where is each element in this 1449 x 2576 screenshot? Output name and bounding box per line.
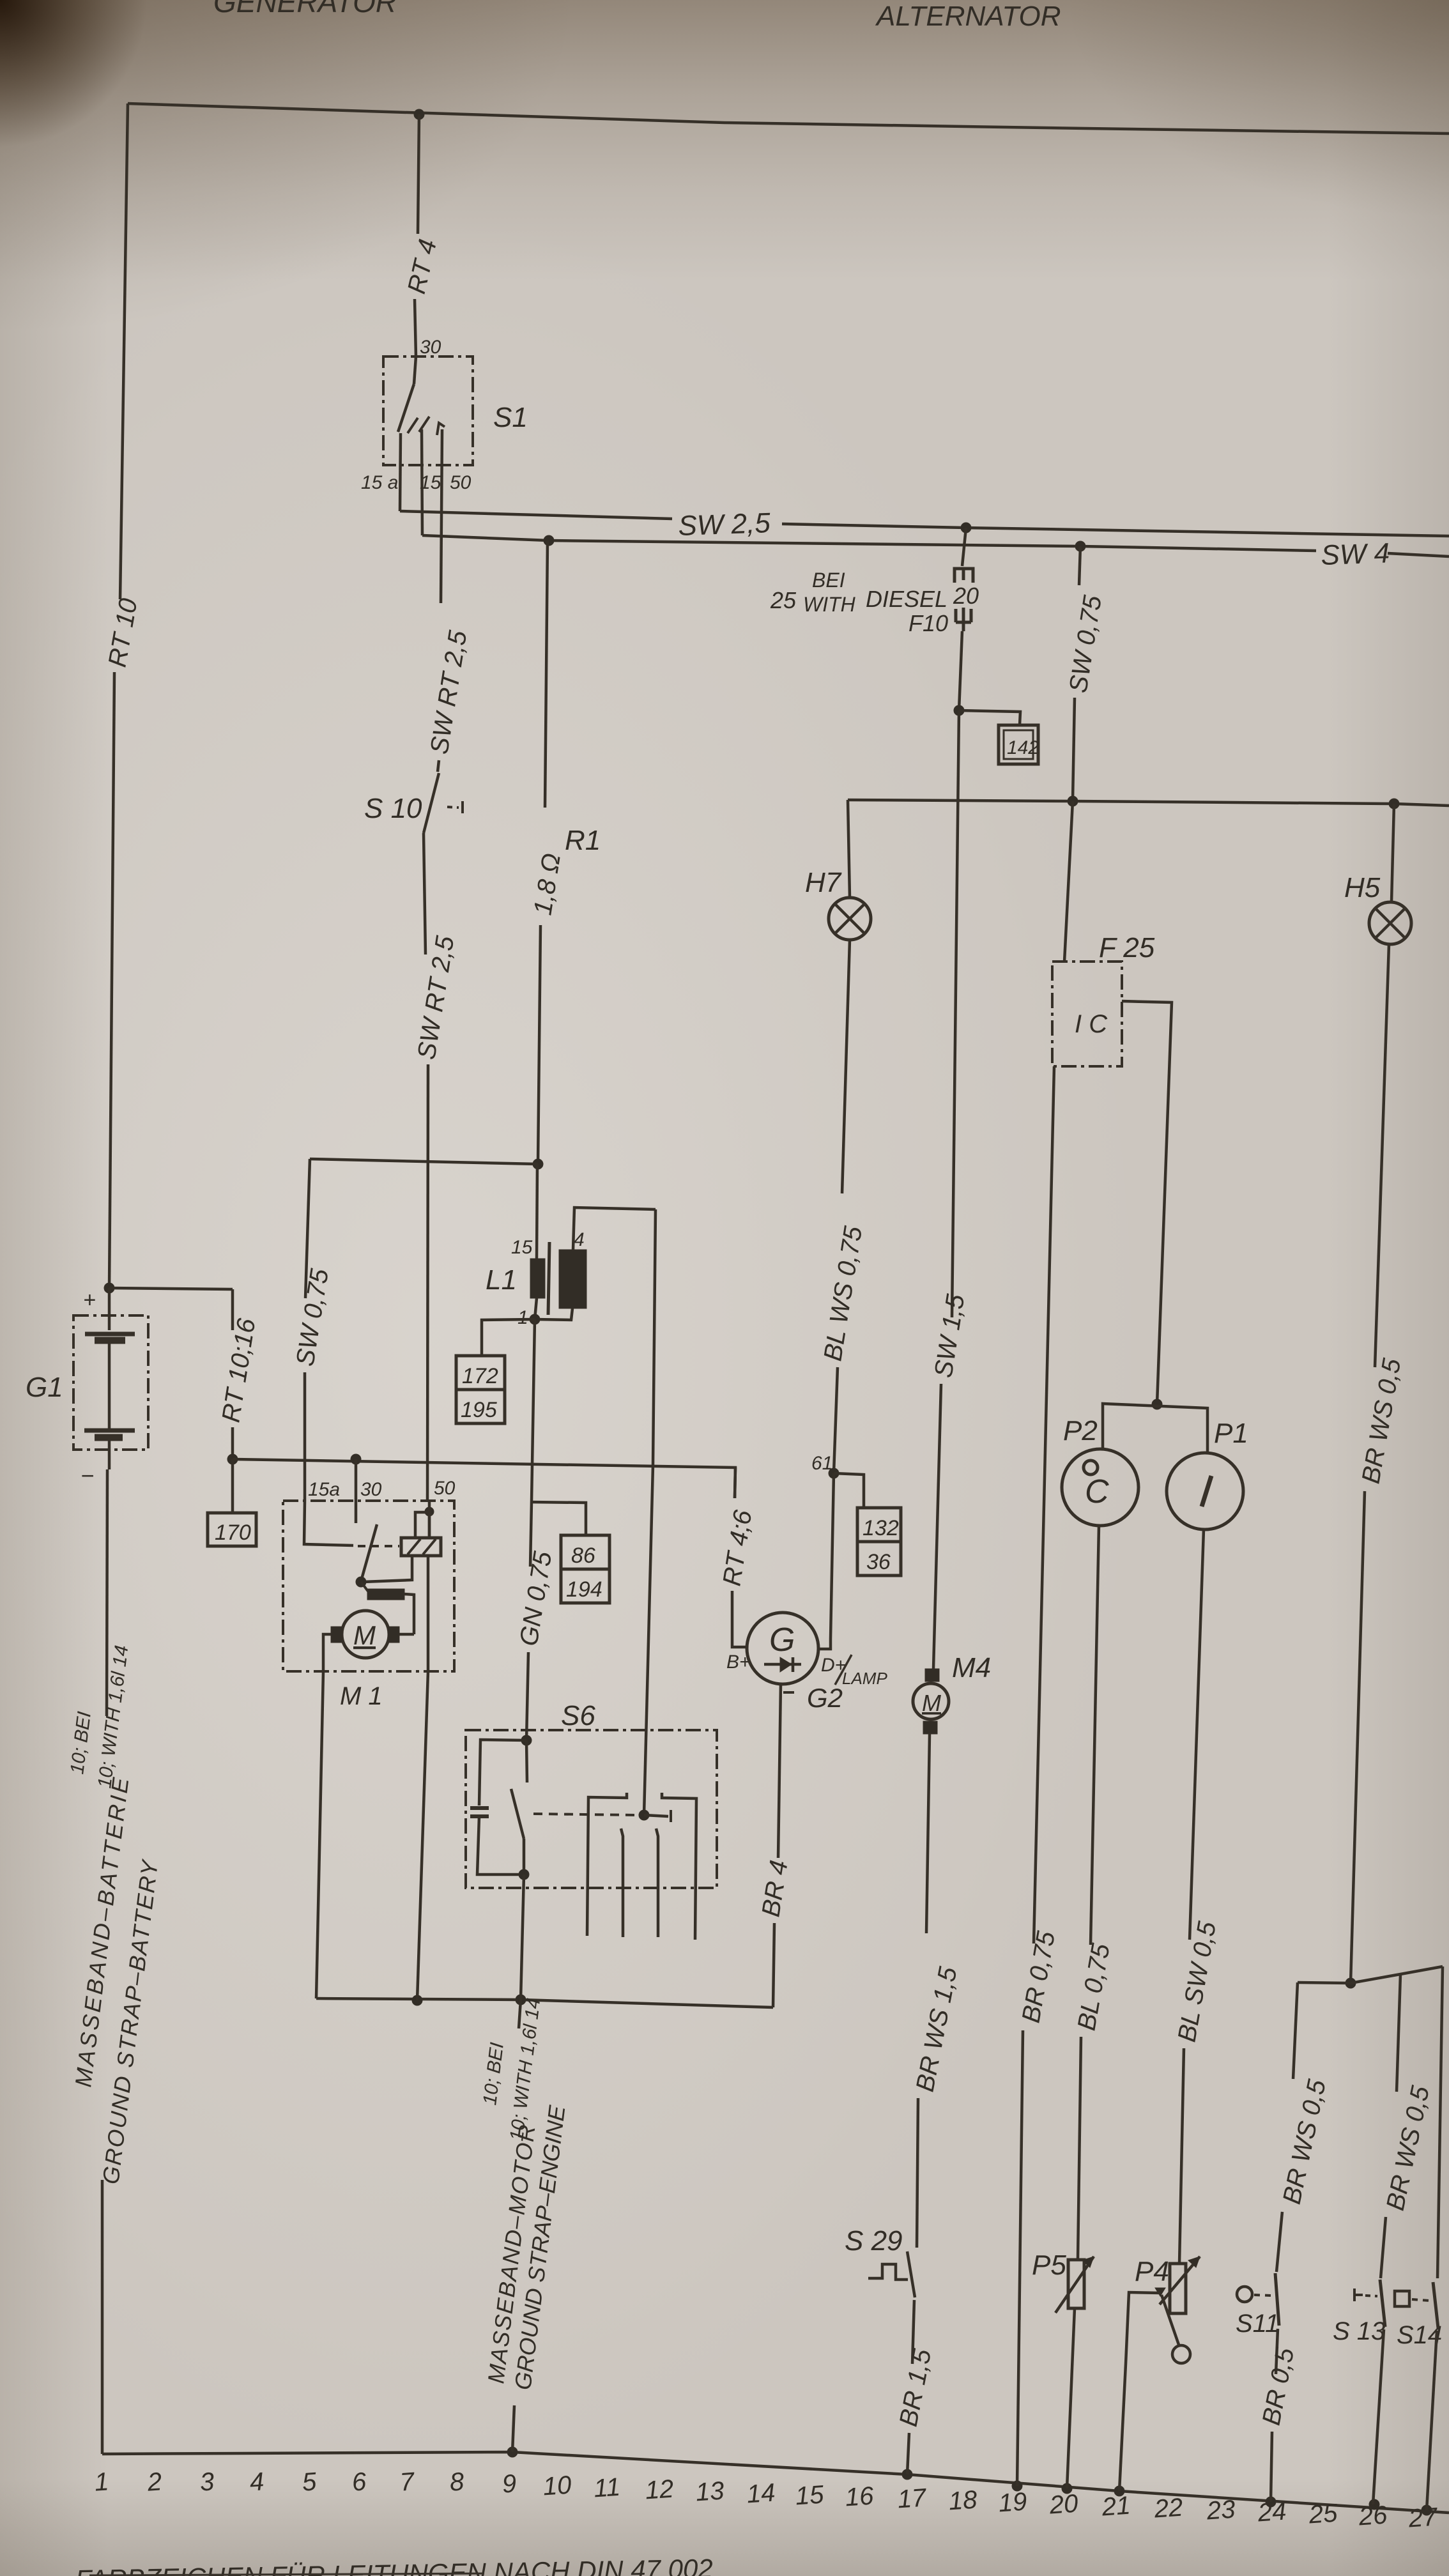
lamp H7: [805, 867, 871, 940]
wire: BL 0,75 below label to P5: [1078, 2037, 1081, 2260]
node: rail junction track 17 (S29): [902, 2469, 912, 2480]
svg-text:S 10: S 10: [364, 793, 422, 824]
wire: bus to H5 top: [1391, 804, 1394, 902]
svg-text:8: 8: [448, 2467, 465, 2496]
node: rail junction track 20 (P5): [1062, 2483, 1072, 2494]
svg-text:M: M: [922, 1690, 941, 1716]
label MASSEBAND-BATTERIE / GROUND STRAP-BATTERY: [66, 1644, 163, 2186]
svg-text:S1: S1: [493, 402, 528, 433]
sender P5 (variable resistor): [1032, 2250, 1094, 2313]
svg-text:R1: R1: [565, 825, 601, 856]
distributor rotor contact: [644, 1810, 671, 1822]
node: junction S6 points input: [521, 1735, 532, 1745]
svg-text:BR WS 0,5: BR WS 0,5: [1381, 2083, 1435, 2212]
svg-text:M4: M4: [952, 1652, 991, 1683]
switch S14: [1395, 2282, 1442, 2349]
wire: BR WS 1,5 below label to S29: [917, 2098, 918, 2248]
svg-text:17: 17: [896, 2483, 928, 2513]
svg-text:14: 14: [746, 2479, 776, 2509]
wire: bracket left leg (BR WS 0,5) upper: [1293, 1982, 1298, 2079]
svg-text:10; WITH 1,6l 14: 10; WITH 1,6l 14: [506, 1997, 544, 2142]
wire: M4 ground (BR WS 1,5) upper part: [926, 1734, 930, 1933]
svg-text:30: 30: [360, 1479, 382, 1500]
wire: F25 ground (BR 0,75) upper part: [1034, 1066, 1054, 1943]
svg-text:10; BEI: 10; BEI: [479, 2041, 508, 2106]
svg-text:2: 2: [146, 2467, 162, 2497]
wire: R1 drop from SW 4, above label: [545, 540, 548, 808]
svg-text:RT 4: RT 4: [402, 236, 442, 296]
node: junction top line / RT4: [414, 109, 424, 119]
svg-text:SW 4: SW 4: [1321, 537, 1390, 571]
wire: RT 10;16 stub lower: [231, 1427, 234, 1459]
svg-text:F 25: F 25: [1099, 932, 1155, 963]
svg-text:SW RT 2,5: SW RT 2,5: [412, 933, 459, 1061]
wire: SW 0,75 (to M1 15a), above label: [305, 1159, 310, 1298]
svg-text:ALTERNATOR: ALTERNATOR: [875, 1, 1061, 32]
svg-text:BL SW 0,5: BL SW 0,5: [1173, 1919, 1222, 2044]
svg-text:61: 61: [811, 1453, 832, 1474]
wire: RT 4 drop from top line, upper part: [418, 114, 419, 234]
plug connectors 172 / 195: [456, 1356, 505, 1423]
wire: F25 output to gauges, corner: [1122, 1001, 1172, 1404]
wire: P1 bottom (BL SW 0,5) upper part: [1190, 1529, 1204, 1940]
svg-text:21: 21: [1100, 2492, 1131, 2522]
svg-text:BR WS 0,5: BR WS 0,5: [1278, 2076, 1331, 2206]
wire: SW RT 2,5 below label to S10: [438, 760, 439, 772]
distributor cap HT lead 3: [656, 1828, 658, 1937]
track numbers 1-27: [93, 2467, 1439, 2533]
svg-text:20: 20: [1048, 2490, 1078, 2520]
wire: below H5 (BR WS 0,5) upper part: [1375, 944, 1389, 1367]
wire: stub down to plug 170: [231, 1459, 234, 1513]
svg-text:6: 6: [351, 2467, 367, 2496]
wire: M1 solenoid ground to rail: [417, 1671, 428, 2000]
svg-text:194: 194: [566, 1577, 602, 1602]
svg-text:36: 36: [866, 1550, 891, 1574]
wire: BR 0,5 below label to rail: [1271, 2432, 1272, 2502]
wire: P2 bottom (BL 0,75) upper part: [1091, 1526, 1099, 1945]
svg-text:SW 1,5: SW 1,5: [929, 1292, 970, 1379]
node: rail junction track 27 (S14): [1422, 2505, 1432, 2515]
svg-text:S11: S11: [1236, 2310, 1279, 2338]
wire: lamp feed bus: [848, 800, 1449, 806]
wire: top supply line (30): [128, 103, 1449, 134]
svg-text:F10: F10: [908, 610, 948, 636]
wire: BL WS 0,75 lower part to node 61: [834, 1367, 838, 1473]
wire: BR 1,5 below label to rail: [907, 2433, 909, 2474]
wire: ballast resistor R1 below label to L1 junction: [538, 925, 540, 1164]
wire: switch bracket (S11/S13/S14): [1298, 1966, 1443, 1983]
node: engine rail / S6 ground + engine strap: [516, 1995, 526, 2005]
label BEI / 25 WITH DIESEL 20: [770, 569, 979, 616]
plug connectors 86 / 194: [561, 1535, 609, 1603]
svg-text:H7: H7: [805, 867, 842, 898]
wire: SW 4 bus, left part: [422, 535, 1316, 551]
node: junction SW 1,5 / plug 142 stub: [954, 705, 964, 716]
svg-text:L1: L1: [486, 1264, 517, 1296]
svg-text:170: 170: [215, 1521, 251, 1545]
battery G1: [26, 1288, 148, 1489]
svg-text:M: M: [353, 1620, 376, 1650]
svg-text:G: G: [769, 1621, 795, 1659]
wire: SW 1,5 below label to M4: [933, 1384, 941, 1669]
node: rail junction track 24 (S11): [1266, 2497, 1276, 2507]
wire: RT 4 drop, lower part to S1 terminal 30: [415, 299, 416, 356]
svg-text:+: +: [83, 1288, 96, 1312]
wire: S1 terminal 15 down: [422, 429, 422, 535]
washer pump motor M4: [913, 1652, 991, 1734]
connector (male) at F10: [956, 608, 971, 631]
svg-text:WITH: WITH: [803, 593, 856, 616]
wire: SW 0,75 below label to M1 terminal 15a: [303, 1372, 307, 1501]
svg-text:9: 9: [501, 2469, 517, 2498]
svg-text:20: 20: [953, 583, 979, 609]
wire: G2 B+ stub: [732, 1591, 747, 1647]
svg-text:18: 18: [947, 2485, 978, 2515]
wire: stub to plug 86/194: [530, 1502, 586, 1535]
svg-text:SW 0,75: SW 0,75: [291, 1266, 334, 1368]
wire: stub to plug 142: [959, 710, 1020, 725]
svg-text:M 1: M 1: [340, 1682, 383, 1710]
wire: RT 4;6 above label to feed line corner: [735, 1468, 735, 1498]
svg-text:13: 13: [694, 2477, 724, 2507]
svg-text:BEI: BEI: [812, 569, 845, 592]
svg-text:86: 86: [571, 1544, 595, 1568]
caption: FARBZEICHEN FUER LEITUNGEN NACH DIN 47 002 (cropped at bottom): [75, 2554, 713, 2576]
svg-text:I C: I C: [1075, 1010, 1108, 1038]
svg-text:10: 10: [542, 2471, 572, 2501]
gauge P1 (fuel): [1167, 1418, 1248, 1529]
node: junction main feed / M1 30: [351, 1454, 361, 1464]
wire: stub from node 61 to plug 132/36: [834, 1473, 864, 1508]
svg-text:5: 5: [301, 2467, 318, 2496]
svg-text:BR 0,5: BR 0,5: [1257, 2345, 1300, 2428]
svg-text:15: 15: [794, 2480, 825, 2510]
wire: bus to F25 top: [1064, 801, 1073, 962]
svg-text:16: 16: [844, 2481, 875, 2511]
wire: SW 0,75 lower part to lamp bus: [1073, 698, 1075, 801]
voltage stabilizer F25: [1052, 932, 1155, 1066]
switch S 13: [1333, 2280, 1385, 2345]
node: junction battery positive / RT 10;16: [104, 1283, 114, 1293]
wire: S6 ground down to engine rail: [521, 1874, 524, 2000]
wire: SW 4 bus, right part to image edge: [1388, 553, 1449, 556]
svg-text:RT 10;16: RT 10;16: [217, 1316, 261, 1424]
switch S11: [1236, 2273, 1279, 2338]
node: junction SW 2,5 / F10 branch: [961, 523, 971, 533]
node: junction L1 terminal 1: [530, 1314, 540, 1324]
distributor cap HT lead 4: [662, 1793, 696, 1940]
svg-text:15 a: 15 a: [361, 472, 398, 493]
wire: left vertical RT 10 (battery positive feed), upper part: [120, 103, 128, 599]
svg-text:G2: G2: [807, 1683, 843, 1713]
svg-text:15: 15: [511, 1237, 533, 1258]
wire: below S29 (BR 1,5) upper part: [912, 2300, 914, 2364]
svg-text:25: 25: [770, 587, 797, 613]
svg-text:SW RT 2,5: SW RT 2,5: [425, 628, 472, 756]
condenser branch in S6: [470, 1740, 526, 1874]
svg-text:LAMP: LAMP: [842, 1669, 887, 1688]
svg-text:132: 132: [862, 1516, 899, 1540]
wire: S1 terminal 15a down: [400, 433, 401, 511]
wire: M1 motor ground to rail corner: [316, 1671, 323, 1998]
wire: SW RT 2,5 to M1 terminal 50: [427, 1064, 428, 1501]
wire: GN 0,75 above label: [530, 1501, 532, 1567]
svg-text:4: 4: [574, 1229, 585, 1250]
svg-text:B+: B+: [726, 1652, 751, 1673]
wire: below H7 (BL WS 0,75) upper part: [842, 940, 850, 1193]
wire: BR WS 0,5 below label to S11: [1276, 2212, 1282, 2272]
wire: horizontal from battery junction to RT 10;16 stub: [109, 1288, 233, 1289]
node: junction S6 condenser/points ground: [519, 1869, 529, 1880]
wire: S1 terminal 50 down (SW RT 2,5), above label: [441, 429, 442, 603]
svg-text:P1: P1: [1214, 1418, 1248, 1449]
svg-text:10; WITH 1,6l 14: 10; WITH 1,6l 14: [94, 1644, 132, 1789]
wire: BL SW 0,5 below label to P4: [1179, 2048, 1184, 2264]
svg-text:50: 50: [450, 472, 471, 493]
wire: G2 ground (BR 4) upper part: [778, 1684, 781, 1858]
svg-text:1,8 Ω: 1,8 Ω: [528, 852, 566, 917]
wire: BR 0,75 below label to rail: [1017, 2030, 1023, 2486]
svg-text:27: 27: [1407, 2503, 1439, 2533]
wire: bracket right end to S14: [1437, 1966, 1443, 2278]
wire: bus left end down to H7: [848, 800, 850, 898]
wire: M1 30 drop: [355, 1459, 358, 1501]
svg-text:P4: P4: [1135, 2256, 1169, 2287]
node: junction bus / H5: [1389, 799, 1399, 809]
wire: node 61 down to G2 D+: [820, 1473, 834, 1649]
svg-text:30: 30: [420, 337, 441, 358]
svg-text:11: 11: [593, 2473, 621, 2503]
svg-text:BR 1,5: BR 1,5: [894, 2347, 937, 2429]
ignition coil L1: [486, 1164, 655, 1328]
wire: bracket to S13 (BR WS 0,5) upper: [1397, 1974, 1400, 2092]
svg-text:S 29: S 29: [845, 2225, 903, 2257]
switch S 10: [364, 773, 463, 833]
svg-text:RT 4;6: RT 4;6: [717, 1508, 757, 1588]
wire: below S10, upper part: [424, 833, 425, 954]
wire: below S11 (BR 0,5) upper: [1276, 2329, 1278, 2374]
wire: battery negative down to ground-strap label: [107, 1469, 107, 1716]
node: engine rail / M1 solenoid ground: [412, 1995, 422, 2005]
node: junction bus / F25 feed: [1068, 796, 1078, 806]
ignition switch S1: [361, 337, 528, 493]
gauge P2 (temperature): [1062, 1415, 1138, 1526]
svg-text:15a: 15a: [308, 1479, 340, 1500]
connector (female) at F10: [954, 569, 973, 583]
wire: GN 0,75 from L1-1 down, above 86/194 stub: [532, 1319, 535, 1501]
svg-text:BL WS 0,75: BL WS 0,75: [818, 1224, 868, 1363]
starter motor M1: [283, 1478, 456, 1710]
svg-text:RT 10: RT 10: [103, 596, 143, 669]
svg-text:26: 26: [1357, 2501, 1388, 2531]
node: rail junction track 21 (P4): [1114, 2486, 1124, 2496]
wire: below F10 connector down to 142 tap: [959, 631, 962, 710]
node: rail junction track 19 (BR 0,75): [1012, 2481, 1022, 2491]
wire: engine ground strap upper stub: [519, 2000, 521, 2028]
svg-text:12: 12: [644, 2475, 674, 2505]
wire: SW 2,5 bus, right part to image edge: [782, 524, 1449, 536]
wire: gauge feed bracket: [1103, 1404, 1207, 1453]
wire: SW 0,75 upper part: [1079, 546, 1080, 585]
node: junction L1 terminal 15: [533, 1159, 543, 1169]
node 61: [829, 1468, 839, 1478]
wire: P4 branch to rail: [1119, 2292, 1160, 2491]
svg-text:S 13: S 13: [1333, 2317, 1385, 2345]
wire: drop from SW 2,5 to connector: [962, 528, 966, 566]
wire: horizontal from L1-15 junction to SW 0,75 corner: [310, 1159, 538, 1164]
wire: battery ground rail: [102, 2452, 1449, 2513]
node: junction main feed / 170 stub: [227, 1454, 238, 1464]
alternator G2: [726, 1613, 887, 1713]
wire: BR 4 below label, corner to engine ground rail: [773, 1923, 774, 2007]
svg-text:142: 142: [1007, 737, 1039, 758]
wire: engine ground rail: [316, 1998, 773, 2007]
svg-text:DIESEL: DIESEL: [866, 586, 947, 612]
wire: SW 1,5 from 142 tap crossing lamp bus, above label: [952, 710, 959, 1317]
svg-text:25: 25: [1307, 2499, 1338, 2529]
svg-text:BL 0,75: BL 0,75: [1073, 1941, 1115, 2032]
node: junction gauge feed: [1152, 1399, 1162, 1409]
svg-text:BR 4: BR 4: [756, 1859, 793, 1919]
wire: stub from L1-1 to plug 172/195: [482, 1319, 535, 1356]
plug connector 142: [999, 725, 1039, 764]
svg-text:GN 0,75: GN 0,75: [514, 1549, 557, 1648]
wire: left vertical RT 10, lower part: [109, 672, 114, 1288]
lamp H5: [1344, 872, 1411, 944]
svg-text:GENERATOR: GENERATOR: [213, 0, 397, 19]
svg-text:50: 50: [434, 1478, 456, 1499]
svg-text:1: 1: [517, 1307, 528, 1328]
svg-text:22: 22: [1153, 2494, 1183, 2524]
svg-text:BR WS 0,5: BR WS 0,5: [1357, 1356, 1407, 1485]
svg-text:C: C: [1085, 1473, 1109, 1510]
svg-text:BR WS 1,5: BR WS 1,5: [911, 1964, 963, 2094]
wire: main feed horizontal to G2 corner: [233, 1459, 735, 1498]
sender P4 (variable resistor with contact): [1135, 2256, 1200, 2363]
svg-text:4: 4: [249, 2467, 264, 2496]
node: junction distributor rotor: [639, 1810, 649, 1820]
plug connector 170: [208, 1513, 256, 1546]
label MASSEBAND-MOTOR / GROUND STRAP-ENGINE: [479, 1997, 570, 2391]
push switch S 29: [845, 2225, 915, 2297]
svg-text:1: 1: [93, 2467, 109, 2496]
svg-text:G1: G1: [26, 1372, 63, 1403]
svg-text:23: 23: [1205, 2495, 1236, 2526]
wire: BR WS 0,5 below label to S13: [1381, 2217, 1386, 2278]
distributor cap HT lead 2: [621, 1828, 623, 1937]
svg-text:172: 172: [462, 1364, 498, 1388]
wire: SW 2,5 bus, left part: [400, 511, 672, 519]
plug connectors 132 / 36: [857, 1508, 901, 1575]
wire: battery ground strap below label to rail: [101, 2180, 104, 2454]
svg-text:S6: S6: [561, 1700, 595, 1731]
wire: RT 10;16 stub upper: [231, 1289, 234, 1330]
node: junction switch bracket: [1345, 1978, 1356, 1988]
svg-text:195: 195: [461, 1398, 497, 1422]
svg-text:10; BEI: 10; BEI: [66, 1710, 95, 1775]
wire: below S13 to rail: [1373, 2329, 1384, 2504]
svg-text:FARBZEICHEN FÜR LEITUNGEN NACH: FARBZEICHEN FÜR LEITUNGEN NACH DIN 47 00…: [75, 2554, 713, 2576]
svg-text:SW 0,75: SW 0,75: [1064, 593, 1107, 694]
distributor cap HT lead 1: [587, 1793, 627, 1936]
node: rail junction track 26 (S13): [1369, 2499, 1379, 2510]
node: junction SW 4 / R1 drop: [544, 535, 554, 546]
wire: BR WS 0,5 below label to switch bracket: [1351, 1491, 1365, 1983]
node: rail junction track 9 (engine strap): [507, 2447, 517, 2457]
breaker points switch in S6: [511, 1740, 636, 1874]
svg-text:H5: H5: [1344, 872, 1381, 903]
svg-text:−: −: [80, 1462, 94, 1489]
svg-text:3: 3: [199, 2467, 215, 2496]
svg-text:19: 19: [997, 2488, 1027, 2518]
breaker points & distributor S6: [466, 1700, 717, 1888]
svg-text:7: 7: [399, 2467, 416, 2497]
wire: engine ground strap below label to battery rail: [512, 2405, 514, 2452]
wire: below S14 to rail: [1427, 2331, 1437, 2510]
svg-text:SW 2,5: SW 2,5: [678, 507, 771, 542]
wire: L1 terminal 4 high-tension lead down to distributor: [644, 1209, 655, 1815]
node: junction SW 4 / SW 0,75 drop: [1075, 541, 1085, 551]
svg-text:P5: P5: [1032, 2250, 1066, 2281]
wire: P5 bottom to rail: [1067, 2308, 1075, 2488]
svg-text:BR 0,75: BR 0,75: [1017, 1929, 1061, 2025]
svg-text:P2: P2: [1063, 1415, 1098, 1446]
wire: GN 0,75 below label into S6: [526, 1652, 528, 1740]
